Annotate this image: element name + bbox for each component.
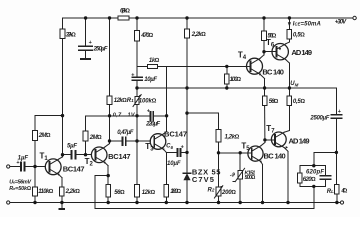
svg-text:2MΩ: 2MΩ [89, 135, 102, 141]
resistor 6,8k (on rail) [118, 16, 129, 20]
wire T1 collector to 5u [63, 154, 71, 156]
svg-text:0,5Ω: 0,5Ω [293, 32, 305, 38]
diode zener BZX55 C7V5 [183, 172, 190, 174]
resistor 0,5 (upper) [287, 29, 292, 39]
svg-text:C7V5: C7V5 [192, 175, 214, 184]
wire 1k line (137 to T4 base) [137, 65, 148, 67]
svg-text:BC147: BC147 [164, 130, 187, 139]
svg-text:Re=50kΩ: Re=50kΩ [9, 186, 32, 192]
wire T3 emitter/180 [165, 152, 167, 184]
wire 0,47u coupling line [110, 140, 122, 142]
resistor RL 4ohm [335, 185, 340, 195]
svg-text:+: + [181, 145, 184, 151]
transistor T1 BC147 [45, 159, 61, 175]
capacitor C6 10u [176, 149, 178, 156]
svg-text:500Ω: 500Ω [245, 175, 257, 181]
node current arrow ICE [288, 22, 291, 27]
junction dot (109.5,141) [108, 139, 111, 142]
svg-text:+: + [89, 40, 92, 46]
junction dot (35,166.5) [33, 165, 36, 168]
svg-text:200Ω: 200Ω [221, 190, 236, 196]
svg-text:BC147: BC147 [63, 165, 85, 174]
svg-text:10µF: 10µF [144, 77, 157, 83]
junction dot (187,113.1) [185, 111, 188, 114]
svg-text:100Ω: 100Ω [230, 77, 242, 83]
junction dot (218.5,202.5) [217, 201, 220, 204]
junction dot (264,18) [262, 16, 265, 19]
svg-text:T4: T4 [238, 51, 247, 62]
junction dot (313.8,186.4) [312, 185, 315, 188]
svg-text:-ϑ: -ϑ [230, 173, 236, 179]
node +30V terminal [353, 16, 356, 19]
capacitor 10u (bootstrap, x137) [132, 76, 142, 78]
junction dot (288,202.5) [286, 201, 289, 204]
svg-text:470Ω: 470Ω [140, 33, 153, 39]
node input gnd terminal [7, 201, 10, 204]
svg-text:+: + [147, 108, 150, 114]
svg-text:R1: R1 [127, 98, 134, 104]
resistor 12k (lower) [135, 185, 140, 198]
svg-text:+: + [16, 160, 19, 166]
junction dot (218.5,152.8) [217, 151, 220, 154]
transistor T2 BC147 [91, 147, 107, 163]
resistor 2M (T2) [83, 131, 88, 141]
wire 2M#2 (T2 bias) [85, 116, 87, 131]
svg-text:RL: RL [327, 189, 334, 195]
svg-text:T6: T6 [266, 38, 275, 49]
svg-text:620Ω: 620Ω [303, 177, 316, 183]
svg-text:ICE=50mA: ICE=50mA [293, 22, 321, 28]
node input terminal [7, 165, 10, 168]
thermistor K151 [238, 170, 243, 179]
transistor T5 BC140 [248, 146, 263, 161]
resistor 2,2k (T1 emitter) [60, 187, 65, 196]
resistor 110k [33, 187, 38, 196]
svg-text:250µF: 250µF [93, 46, 108, 52]
svg-text:4Ω: 4Ω [340, 189, 347, 195]
wire thermistor branch [239, 153, 241, 171]
resistor 100 (T4 base-UM) [226, 66, 228, 74]
potentiometer R2 200 [216, 187, 221, 196]
resistor 56 (upper) [262, 31, 267, 41]
svg-text:C6: C6 [166, 144, 173, 150]
wire left branch 33k / T1 collector [62, 18, 64, 29]
junction dot (85.6,18) [84, 16, 87, 19]
wire bottom rail [10, 202, 341, 204]
junction dot (262.5,202.5) [261, 201, 264, 204]
wire T5 base line [219, 152, 249, 154]
resistor 470 [135, 31, 140, 42]
wire C6 emitter bypass [166, 151, 176, 153]
svg-text:2,2kΩ: 2,2kΩ [191, 32, 206, 38]
junction dot (264.9,139.9) [263, 138, 266, 141]
wire feedback return [313, 186, 315, 208]
svg-text:56Ω: 56Ω [114, 190, 125, 196]
svg-text:AD 149: AD 149 [289, 136, 310, 145]
svg-text:2,2kΩ: 2,2kΩ [65, 189, 81, 195]
svg-text:2500µF: 2500µF [309, 115, 329, 121]
svg-text:12kΩ: 12kΩ [142, 190, 156, 196]
ground (below 250u) [81, 58, 90, 60]
junction dot (62.5,115.6) [61, 114, 64, 117]
wire T1 emitter / 2,2k [61, 178, 63, 188]
wire 250u branch [85, 18, 87, 46]
wire T4 emitter to UM [264, 79, 266, 89]
resistor 56 (T2 emitter) [106, 185, 111, 198]
svg-text:2MΩ: 2MΩ [38, 133, 51, 139]
wire mid U_M line [137, 87, 336, 89]
wire feedback network tap [314, 151, 337, 153]
junction dot (240.2,152.8) [239, 151, 242, 154]
wire 0,5 upper branch [288, 18, 290, 29]
ground (chassis mark) [61, 203, 63, 208]
svg-text:BC147: BC147 [108, 152, 131, 161]
junction dot (187,18) [185, 16, 188, 19]
junction dot (109.5,18) [108, 16, 111, 19]
svg-text:T3: T3 [145, 142, 154, 153]
junction dot (137,18) [135, 16, 138, 19]
svg-text:620pF: 620pF [306, 170, 324, 176]
resistor 12k (upper) [107, 96, 112, 104]
svg-text:5µF: 5µF [67, 144, 77, 150]
wire 2M#1 feedback (T1) [35, 115, 63, 117]
wire 470 branch from rail [136, 18, 138, 31]
svg-text:1,2kΩ: 1,2kΩ [225, 134, 240, 140]
junction dot (289.4,18) [288, 16, 291, 19]
capacitor 220u [150, 112, 152, 120]
svg-text:+30V: +30V [335, 20, 347, 26]
capacitor 5u [71, 151, 73, 159]
svg-text:1kΩ: 1kΩ [149, 58, 160, 64]
svg-text:0,47µF: 0,47µF [117, 130, 133, 136]
junction dot (226.8,66.4) [225, 65, 228, 68]
resistor 180 [164, 185, 169, 198]
resistor 2M (T1) [33, 131, 38, 141]
svg-text:220µF: 220µF [145, 121, 160, 127]
wire input [10, 166, 20, 168]
junction dot (61.9,202.5) [60, 201, 63, 204]
junction dot (289.4,88) [288, 86, 291, 89]
potentiometer R1 100k [136, 88, 138, 96]
svg-text:6,8kΩ: 6,8kΩ [120, 8, 130, 14]
resistor 0,5 (lower) [287, 96, 292, 106]
svg-text:0,5Ω: 0,5Ω [293, 99, 306, 105]
junction dot (264,51.7) [262, 50, 265, 53]
svg-text:BC 140: BC 140 [262, 68, 284, 77]
svg-text:180Ω: 180Ω [170, 189, 181, 195]
wire 2,2k top branch (bias chain) [186, 18, 188, 29]
junction dot (240.2,202.5) [239, 201, 242, 204]
junction dot (166.3,202.5) [165, 201, 168, 204]
svg-text:0,7...1V: 0,7...1V [113, 112, 136, 118]
junction dot (187,202.5) [185, 201, 188, 204]
svg-text:BC 140: BC 140 [264, 152, 286, 161]
svg-text:T7: T7 [266, 124, 275, 135]
transistor T3 BC147 [150, 134, 166, 150]
svg-text:Ue=56mV: Ue=56mV [9, 179, 32, 185]
junction dot (336.4,152.4) [335, 151, 338, 154]
resistor 1,2k [216, 130, 221, 143]
transistor T6 AD149 [272, 44, 288, 60]
svg-text:+: + [131, 73, 134, 79]
wire 110k branch [34, 167, 36, 188]
junction dot (313.8,165.7) [312, 164, 315, 167]
svg-text:R2: R2 [208, 188, 215, 194]
wire output branch down [335, 88, 337, 115]
junction dot (85.5,154.7) [84, 153, 87, 156]
svg-text:T5: T5 [241, 142, 250, 153]
svg-text:T1: T1 [40, 151, 49, 162]
junction dot (137,115.8) [135, 114, 138, 117]
wire node line 0,7V (segment B) [86, 115, 151, 117]
capacitor 1u input [20, 162, 22, 170]
junction dot (264.6,88) [263, 86, 266, 89]
junction dot (62.5,154.7) [61, 153, 64, 156]
wire 0,5 lower branch [288, 88, 290, 96]
svg-text:110kΩ: 110kΩ [38, 189, 53, 195]
junction dot (137,202.5) [135, 201, 138, 204]
junction dot (166.6,115.8) [165, 114, 168, 117]
network 620/620p box [300, 165, 326, 167]
node output terminal [340, 201, 343, 204]
capacitor 0,47u [121, 137, 123, 145]
junction dot (108.2,175.6) [107, 174, 110, 177]
svg-text:56Ω: 56Ω [269, 99, 279, 105]
svg-text:UM: UM [290, 81, 298, 87]
svg-text:33kΩ: 33kΩ [66, 32, 77, 38]
wire 12k branch from rail [109, 18, 111, 96]
junction dot (108.2,202.5) [107, 201, 110, 204]
junction dot (187,152.4) [185, 151, 188, 154]
capacitor 2500u [331, 114, 341, 116]
wire 1,2k branch [187, 112, 219, 114]
junction dot (336.9,202.5) [335, 201, 338, 204]
wire bias chain to zener [186, 88, 188, 173]
svg-text:AD 149: AD 149 [291, 48, 312, 57]
transistor T4 BC140 [247, 58, 263, 74]
svg-text:+: + [338, 109, 341, 115]
resistor 56 (lower) [262, 96, 267, 106]
resistor 2,2k (top) [185, 29, 190, 38]
svg-text:12kΩ: 12kΩ [114, 98, 127, 104]
capacitor 250u [79, 45, 93, 47]
wire top supply rail [63, 17, 118, 19]
wire T2 emitter [107, 166, 109, 185]
junction dot (137,88) [135, 86, 138, 89]
junction dot (137,141) [135, 139, 138, 142]
svg-text:10µF: 10µF [167, 161, 181, 167]
transistor T7 AD149 [271, 132, 286, 147]
junction dot (187,88) [185, 86, 188, 89]
wire T3 collector [166, 66, 168, 131]
junction dot (226.8,88) [225, 86, 228, 89]
resistor 1k [148, 65, 158, 69]
resistor 33k [60, 29, 65, 39]
wire 56 upper branch [263, 18, 265, 31]
svg-text:100kΩ: 100kΩ [139, 98, 157, 104]
junction dot (35,202.5) [33, 201, 36, 204]
junction dot (109.5,115.8) [108, 114, 111, 117]
wire T3 base bias column to 12k [136, 116, 138, 141]
wire 56 lower branch [264, 88, 266, 96]
